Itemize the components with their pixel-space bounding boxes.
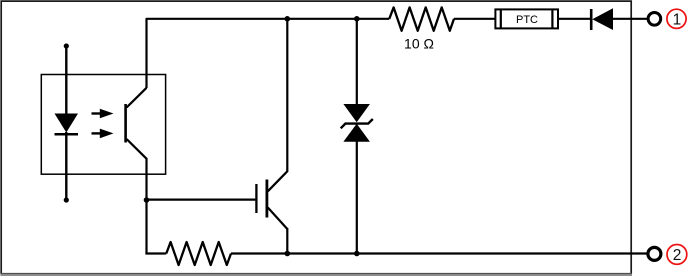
wire base of Q2 — [147, 199, 256, 201]
LED cathode lead with endpoint dot — [65, 132, 67, 200]
wire bottom left segment — [145, 252, 166, 254]
light arrow lower — [92, 129, 114, 139]
light arrow upper — [92, 109, 114, 119]
diode D1 — [591, 8, 613, 30]
resistor R1 — [389, 7, 454, 30]
wire TVS branch vertical — [356, 19, 358, 106]
node junction top rail / TVS — [354, 16, 360, 22]
LED D2 (emitting diode) — [55, 114, 79, 135]
phototransistor Q1 — [126, 88, 147, 159]
wire Q1 emitter down to junction and bottom corner — [145, 158, 147, 254]
node label 1 — [667, 9, 686, 28]
node junction top rail / Q2 collector — [285, 16, 291, 22]
svg-text:PTC: PTC — [516, 14, 538, 26]
TVS suppressor Z1 — [341, 104, 373, 142]
svg-text:10 Ω: 10 Ω — [404, 35, 434, 51]
node junction bottom rail / Q2 emitter — [285, 251, 291, 257]
resistor R2 — [166, 242, 231, 265]
wire D1 to terminal 1 — [613, 18, 647, 20]
wire top horizontal from opto collector corner to resistor R1 — [147, 19, 390, 88]
wire R1 to PTC — [454, 18, 495, 20]
terminal circle 2 — [648, 247, 661, 260]
svg-text:1: 1 — [673, 11, 682, 28]
wire bottom from R2 to terminal 2 — [231, 252, 647, 254]
node junction bottom rail / TVS — [354, 251, 360, 257]
svg-text:2: 2 — [673, 247, 682, 264]
PTC fuse F1 — [495, 9, 558, 28]
node label 2 — [667, 245, 687, 265]
wire PTC to diode D1 — [559, 18, 592, 20]
optocoupler U1 box — [41, 75, 165, 175]
wire Q2 emitter down to bottom rail — [286, 228, 288, 254]
IGBT Q2 — [256, 171, 287, 229]
terminal circle 1 — [648, 12, 661, 25]
LED anode lead with endpoint dot — [65, 46, 67, 114]
wire Q2 collector up to top rail — [286, 19, 288, 172]
node junction at emitter/base wire — [144, 197, 150, 203]
